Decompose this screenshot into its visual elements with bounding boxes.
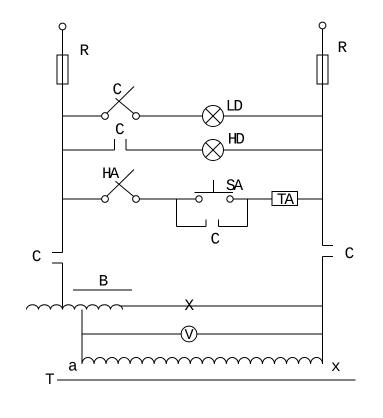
pushbutton SA bar — [195, 192, 234, 194]
wire row2 left segment — [63, 149, 115, 151]
label B underline — [73, 289, 132, 291]
wire X line — [120, 305, 323, 307]
label a — [69, 362, 77, 371]
label T — [46, 374, 54, 385]
contact C branch right tick — [218, 220, 220, 227]
switch C row1 second blade — [116, 98, 134, 113]
switch HA contact circle left — [102, 196, 109, 203]
pushbutton SA stem — [213, 180, 215, 193]
wire C branch right vertical — [247, 199, 249, 227]
label C left capacitor — [33, 250, 41, 261]
label R left — [81, 45, 89, 56]
label C row1 switch — [113, 83, 121, 94]
wire row2 middle segment — [126, 149, 203, 151]
wire right bus upper — [322, 29, 324, 246]
label V voltmeter — [185, 329, 194, 339]
label SA — [227, 179, 244, 190]
wire C branch left horizontal — [177, 226, 207, 228]
wire row3 segment to TA — [234, 198, 273, 200]
label X — [185, 300, 194, 311]
resistor R left — [57, 55, 68, 84]
wire right bus lower — [322, 257, 324, 365]
contact C branch left tick — [205, 220, 207, 227]
pushbutton SA circle left — [196, 196, 202, 202]
wire row3 middle segment — [140, 198, 196, 200]
wire T line — [57, 379, 356, 381]
wire row1 middle segment — [140, 115, 203, 117]
wire C branch right horizontal — [219, 226, 248, 228]
capacitor C right bottom plate — [323, 256, 334, 258]
wire C branch left vertical — [176, 199, 178, 227]
terminal circle left supply — [59, 23, 66, 30]
inductor secondary winding — [82, 357, 323, 364]
label C right capacitor — [346, 247, 354, 258]
label R right — [339, 42, 347, 53]
capacitor C left bottom plate — [52, 262, 63, 264]
voltmeter V — [181, 326, 197, 342]
capacitor C right top plate — [323, 245, 334, 247]
switch C row1 blade — [107, 87, 134, 114]
switch HA contact circle right — [133, 196, 140, 203]
wire voltmeter line left — [82, 333, 181, 335]
label x — [332, 363, 340, 372]
wire row1 left segment — [63, 115, 102, 117]
pushbutton SA circle right — [227, 196, 233, 202]
wire left bus lower — [62, 263, 64, 310]
relay coil TA box — [272, 192, 298, 206]
resistor R right — [317, 55, 328, 84]
capacitor C left top plate — [52, 252, 63, 254]
lamp LD — [203, 106, 224, 127]
label HD — [229, 133, 244, 144]
switch HA second blade — [116, 181, 134, 196]
label TA — [277, 194, 294, 205]
terminal circle right supply — [319, 22, 326, 29]
wire row3 left segment — [63, 198, 102, 200]
contact C row2 right tick — [125, 139, 127, 150]
label HA — [103, 168, 119, 179]
wire row3 right segment — [298, 198, 323, 200]
label B — [100, 275, 108, 286]
contact C row2 left tick — [114, 139, 116, 150]
wire left bus upper — [62, 30, 64, 253]
switch C row1 contact circle right — [133, 113, 140, 120]
label LD — [228, 100, 243, 111]
wire row2 right segment — [224, 149, 323, 151]
switch C row1 contact circle left — [102, 113, 109, 120]
wire voltmeter line right — [197, 333, 323, 335]
label C row2 contact — [116, 123, 124, 134]
label C branch — [211, 233, 219, 244]
wire row1 right segment — [224, 115, 323, 117]
lamp HD — [203, 140, 224, 161]
wire middle vertical tap — [81, 310, 83, 365]
inductor B winding — [27, 305, 123, 310]
switch HA blade — [107, 170, 134, 197]
